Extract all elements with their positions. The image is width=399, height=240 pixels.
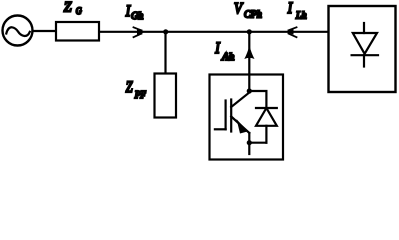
- svg-text:I: I: [287, 0, 293, 17]
- svg-text:Ah: Ah: [221, 52, 234, 62]
- label Z_PF: [126, 79, 146, 101]
- label I_Gh: [125, 3, 143, 22]
- impedance Z_G: [56, 22, 99, 41]
- label Z_G: [64, 0, 82, 16]
- svg-text:Z: Z: [126, 79, 133, 97]
- diode D2: [352, 23, 378, 67]
- node V_CPh dot: [247, 29, 252, 34]
- arrow I_Lh: [285, 27, 297, 37]
- svg-text:CPh: CPh: [244, 10, 262, 21]
- wire: [248, 143, 250, 154]
- node top dot: [247, 88, 252, 93]
- wire: [164, 32, 166, 73]
- node A junction dot: [163, 29, 168, 34]
- wire: [166, 31, 328, 33]
- svg-text:PF: PF: [134, 91, 146, 102]
- diode D1: [256, 108, 277, 143]
- IGBT Q1: [215, 93, 249, 143]
- label I_Ah: [214, 40, 234, 63]
- wire: [248, 32, 250, 74]
- active power filter box U1: [210, 75, 284, 160]
- svg-text:V: V: [234, 0, 244, 17]
- svg-text:G: G: [76, 6, 82, 17]
- svg-text:Gh: Gh: [131, 11, 143, 22]
- wire: [249, 91, 266, 108]
- label I_Lh: [287, 0, 307, 21]
- AC source V1: [3, 16, 33, 46]
- label V_CPh: [234, 0, 262, 20]
- arrow I_Gh: [134, 27, 147, 37]
- wire: [100, 31, 166, 33]
- wire: [248, 75, 250, 92]
- svg-text:Lh: Lh: [295, 11, 307, 22]
- svg-text:Z: Z: [64, 0, 72, 16]
- wire: [249, 142, 266, 144]
- node bottom dot: [247, 140, 252, 145]
- wire: [33, 30, 56, 32]
- filter impedance Z_PF: [155, 74, 177, 118]
- nonlinear load box U2: [329, 6, 396, 92]
- arrow I_Ah: [244, 46, 254, 60]
- svg-text:I: I: [214, 40, 220, 57]
